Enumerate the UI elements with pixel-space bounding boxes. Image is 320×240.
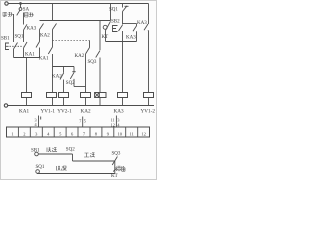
wire terminal drop 3-4	[38, 116, 40, 128]
wire KA2-YV2 branch top	[63, 67, 65, 73]
svg-text:KA2: KA2	[81, 109, 91, 115]
hanzi pseudo-glyphs drawn as strokes	[2, 12, 125, 171]
label 自动 (auto)	[25, 13, 34, 18]
svg-text:SQ2: SQ2	[66, 81, 75, 86]
terminal strip box	[7, 127, 150, 137]
wire terminal drop 11-12	[115, 116, 117, 128]
wire work feed	[73, 160, 115, 162]
wire feeder column C top	[52, 4, 54, 21]
labels: coil names under bottom rail	[19, 109, 155, 115]
contact SQ3 tick	[112, 157, 117, 166]
svg-text:SQ3: SQ3	[112, 151, 121, 156]
contact SQ3 blade	[96, 51, 100, 58]
svg-text:11: 11	[130, 131, 134, 136]
wire main right column to bus3	[122, 12, 124, 25]
tick KT delay on drop	[113, 168, 116, 171]
wire bus2	[53, 66, 75, 68]
wire dashed link KA2 contacts	[53, 40, 90, 42]
node start circle	[35, 152, 39, 156]
switch SA blade to manual	[17, 10, 20, 15]
label 快退 (rapid return)	[57, 166, 67, 171]
wire bus1	[40, 20, 111, 22]
wire KA1 coil drop	[26, 58, 28, 93]
svg-text:SQ3: SQ3	[88, 60, 97, 65]
svg-text:KA2: KA2	[40, 34, 50, 39]
wire merge to KA1 coil	[14, 57, 40, 59]
wire KT contact low	[105, 31, 107, 42]
coil YV1-2	[144, 93, 154, 98]
contact SQ2 NC bar	[72, 71, 75, 73]
wire YV1-2 drop	[147, 30, 150, 92]
wire terminal drop 7-5	[82, 117, 84, 128]
wire KA2 coil drop	[85, 54, 87, 93]
contact KA3 blade (YV1-2 branch)	[144, 24, 148, 30]
wire col D mid	[39, 30, 41, 42]
contact SB1 blade	[14, 43, 18, 50]
wire main right column top	[122, 4, 124, 8]
wire SQ2 jog to KA2 coil	[74, 86, 86, 88]
wire SQ2 low	[73, 79, 75, 87]
labels: terminal numbers 1-12	[11, 131, 145, 136]
svg-text:2: 2	[23, 131, 25, 136]
wire YV2-1 drop	[63, 80, 65, 93]
coil KA3	[118, 93, 128, 98]
contact SQ1 NC bar	[125, 5, 129, 7]
terminal strip dividers	[18, 127, 137, 137]
wire auto column	[23, 17, 25, 25]
border frame	[1, 1, 157, 180]
svg-text:12: 12	[111, 122, 115, 127]
svg-text:7: 7	[79, 119, 81, 124]
wire bottom rail	[8, 105, 154, 107]
label 停留 (dwell)	[116, 166, 125, 171]
node return end circle	[36, 170, 40, 174]
wire YV1-1 drop	[52, 67, 54, 93]
contact KA3 self-hold blade	[133, 26, 137, 32]
coil KT delay box	[95, 93, 100, 98]
svg-text:YV1-2: YV1-2	[141, 109, 156, 115]
contact SQ1 NC blade	[123, 6, 128, 12]
svg-text:1: 1	[11, 131, 13, 136]
coil KT	[99, 93, 106, 98]
svg-text:KA3: KA3	[27, 27, 37, 32]
switch SA pivot	[20, 4, 22, 8]
coil YV1-1	[47, 93, 57, 98]
label 手动 (manual)	[2, 12, 13, 17]
pushbutton SB1 link dashes	[10, 45, 24, 47]
svg-text:KT: KT	[111, 174, 118, 179]
contact (col C) blade	[53, 24, 57, 30]
wire right edge column	[148, 4, 150, 25]
wire col C mid	[52, 30, 54, 48]
labels: sequence diagram latin	[31, 148, 121, 179]
wire drop to work feed	[72, 154, 74, 161]
wire auto column low	[23, 48, 25, 58]
wire SQ2 branch top	[73, 67, 75, 73]
svg-text:KA2: KA2	[75, 54, 85, 59]
svg-text:10: 10	[118, 131, 123, 136]
wire KA3 coil drop	[122, 42, 124, 93]
svg-text:SB2: SB2	[111, 19, 120, 24]
contact KA2 blade (YV2 branch)	[60, 73, 64, 80]
svg-text:SA: SA	[23, 7, 30, 12]
contact SQ2 blade	[70, 72, 74, 79]
svg-text:SB1: SB1	[1, 37, 10, 42]
wire col D low	[39, 48, 41, 58]
contact KA1 self-hold blade (col D)	[36, 42, 40, 48]
contact KA2 self-hold blade	[86, 48, 90, 55]
svg-text:12: 12	[141, 131, 146, 136]
wire bus3	[123, 23, 137, 25]
svg-text:KA3: KA3	[137, 21, 147, 26]
wire main right column mid	[122, 31, 124, 42]
svg-text:KA1: KA1	[19, 109, 29, 115]
wire KA1 coil to rail	[26, 98, 28, 106]
contact KA2 blade (col D)	[40, 24, 44, 30]
svg-text:YV2-1: YV2-1	[57, 109, 72, 115]
svg-text:SQ1: SQ1	[109, 7, 118, 12]
contact SQ1 (auto line) blade	[24, 42, 28, 48]
svg-text:5: 5	[84, 119, 86, 124]
wire rapid return	[37, 173, 115, 175]
svg-text:KA1: KA1	[39, 56, 49, 61]
wire below SB1	[13, 49, 15, 58]
svg-text:SQ2: SQ2	[66, 148, 75, 153]
contact KT delayed blade	[106, 21, 111, 30]
label 工进 (work feed)	[84, 153, 95, 158]
svg-text:SB1: SB1	[31, 148, 40, 153]
svg-text:YV1-1: YV1-1	[41, 109, 56, 115]
switch SA right contact tick	[23, 13, 25, 18]
labels: terminal wire numbers	[35, 117, 121, 127]
wire KA3 self-hold low	[136, 31, 138, 41]
wire YV1-2 to rail	[148, 98, 150, 106]
coil YV2-1	[59, 93, 69, 98]
svg-text:KA3: KA3	[126, 35, 136, 40]
wire YV2-1 to rail	[63, 98, 65, 106]
pushbutton SB2 head	[113, 26, 118, 32]
wire manual column	[13, 14, 15, 42]
wire KA3 coil to rail	[122, 98, 124, 106]
pushbutton SB1 head	[6, 43, 10, 50]
wire col C to bus2	[52, 54, 54, 67]
coil KA2	[81, 93, 91, 98]
svg-text:SQ1: SQ1	[15, 35, 24, 40]
coil KA1	[22, 93, 32, 98]
contact KT delay arc	[103, 25, 107, 29]
wire KA3 self-hold branch top	[136, 24, 138, 26]
contact KA1 blade (col C)	[48, 47, 52, 54]
svg-text:KA2: KA2	[52, 74, 62, 79]
sequence diagram	[35, 152, 118, 173]
wire YV1-1 to rail	[52, 98, 54, 106]
svg-text:KA1: KA1	[25, 53, 35, 58]
wire rapid advance	[38, 153, 72, 155]
labels: latin texts	[1, 7, 147, 85]
wire terminal tick 4	[40, 117, 42, 120]
wire bus1 corner down to SQ3	[99, 21, 101, 51]
contact SB2 blade	[119, 25, 123, 31]
wire KA2 coil to rail	[85, 98, 87, 106]
bottom rail terminal circle	[4, 104, 7, 107]
svg-text:KT: KT	[102, 35, 109, 40]
wire KA2 self-hold column top	[89, 41, 91, 48]
svg-text:SQ1: SQ1	[36, 165, 45, 170]
svg-text:KA3: KA3	[114, 109, 124, 115]
wire merge3	[106, 41, 137, 43]
label 快进 (rapid advance)	[47, 147, 57, 152]
contact KA3 (auto line) blade	[24, 24, 28, 30]
top rail terminal circle	[5, 2, 8, 5]
wire KT coil to rail	[99, 98, 101, 106]
wire KT contact drop	[110, 4, 112, 21]
node SA junction dot	[20, 3, 22, 5]
wire top rail	[8, 3, 148, 5]
wire auto column mid	[23, 30, 25, 42]
wire SQ3 to KT coil	[99, 58, 101, 93]
wire dwell drop	[114, 161, 116, 174]
